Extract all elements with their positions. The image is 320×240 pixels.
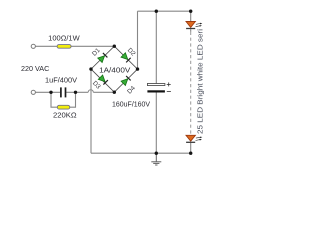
svg-text:220KΩ: 220KΩ bbox=[53, 110, 77, 119]
svg-text:220 VAC: 220 VAC bbox=[21, 64, 49, 73]
svg-text:160uF/160V: 160uF/160V bbox=[112, 100, 150, 109]
svg-text:25 LED Bright white LED seri: 25 LED Bright white LED seri bbox=[196, 29, 205, 134]
svg-text:100Ω/1W: 100Ω/1W bbox=[48, 34, 80, 43]
svg-text:1A/400V: 1A/400V bbox=[99, 65, 130, 74]
svg-text:1uF/400V: 1uF/400V bbox=[45, 76, 77, 85]
